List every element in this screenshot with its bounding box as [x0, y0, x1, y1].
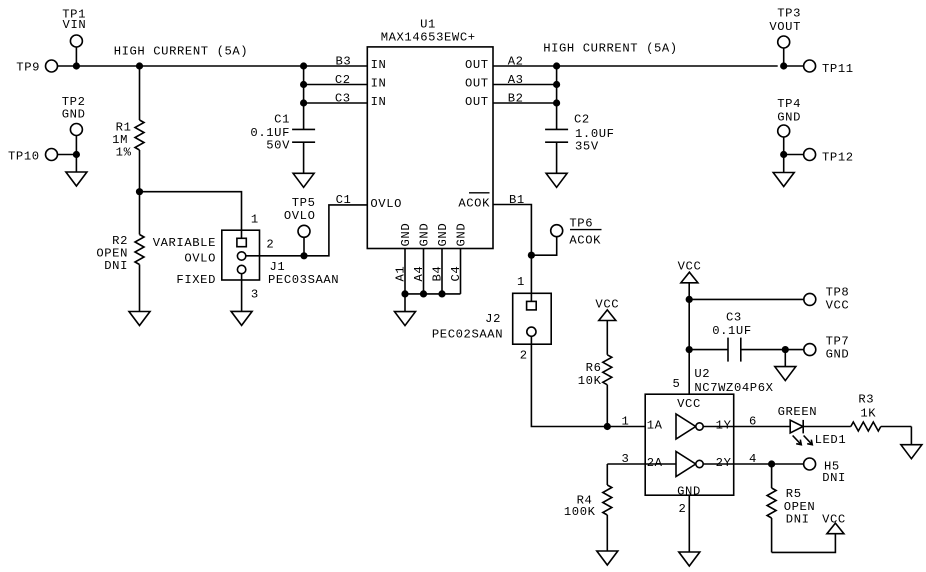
svg-text:U1: U1: [420, 18, 436, 32]
junction TP10 / TP2: [73, 151, 80, 158]
U1 pin designator A1 (rotated): [394, 266, 408, 282]
junction VCC / TP8: [686, 296, 693, 303]
svg-text:C2: C2: [574, 113, 590, 127]
U1 pin name OUT 2: [465, 77, 489, 91]
U1 pin designator A4 (rotated): [412, 266, 426, 282]
U2 pin name 1A: [647, 419, 663, 433]
svg-text:2: 2: [679, 502, 687, 516]
wire 1Y to LED1: [703, 426, 790, 428]
svg-text:TP3: TP3: [777, 7, 801, 21]
junction OUT A2: [553, 62, 560, 69]
svg-text:5: 5: [673, 377, 681, 391]
svg-text:ACOK: ACOK: [458, 197, 490, 211]
U2 pin number 4: [749, 452, 757, 466]
test point TP10: [8, 149, 76, 164]
svg-text:100K: 100K: [564, 505, 596, 519]
ground at R3: [901, 427, 922, 459]
svg-text:C1: C1: [274, 113, 290, 127]
svg-text:OUT: OUT: [465, 77, 489, 91]
test point TP1: [62, 8, 86, 67]
ground at TP4: [773, 155, 794, 187]
J1 pin name FIXED: [176, 273, 216, 287]
svg-text:1Y: 1Y: [716, 419, 732, 433]
svg-text:A1: A1: [394, 266, 408, 282]
net label HIGH CURRENT (5A) left: [114, 45, 249, 59]
svg-text:VCC: VCC: [826, 298, 850, 312]
U1 pin designator C4 (rotated): [449, 266, 463, 282]
junction OUT B2: [553, 99, 560, 106]
svg-text:GND: GND: [62, 108, 86, 122]
U1 pin name OVLO: [370, 197, 402, 211]
wire OUT A3: [493, 84, 557, 86]
U1 pin designator B2: [508, 92, 524, 106]
wire 2Y to H5: [703, 463, 803, 465]
resistor R6: [578, 355, 612, 427]
U1 pin designator A3: [508, 73, 524, 87]
power VCC at R5: [822, 512, 846, 533]
ground at J1 pin 3: [231, 311, 252, 325]
U1 pin name GND B4 (rotated): [436, 223, 450, 247]
svg-text:TP10: TP10: [8, 150, 40, 164]
wire U2 GND pin 2: [688, 495, 690, 552]
U2 pin number 5: [673, 377, 681, 391]
test point TP3: [769, 7, 801, 67]
U1 pin designator A2: [508, 55, 524, 69]
svg-text:C1: C1: [336, 193, 352, 207]
resistor R4: [564, 464, 612, 551]
svg-text:R3: R3: [858, 393, 874, 407]
svg-text:J2: J2: [485, 312, 501, 326]
wire IN C2: [304, 84, 368, 86]
svg-text:C2: C2: [335, 73, 351, 87]
J1 pin number 2: [266, 237, 274, 251]
svg-text:1A: 1A: [647, 419, 663, 433]
junction VIN / TP1: [73, 62, 80, 69]
U1 pin name ACOK with overline: [458, 193, 490, 211]
junction R1 bottom node: [136, 188, 143, 195]
svg-text:0.1UF: 0.1UF: [712, 324, 752, 338]
U2 pin name 1Y: [716, 419, 732, 433]
junction VOUT / TP3: [780, 62, 787, 69]
svg-text:GND: GND: [436, 223, 450, 247]
IC U1 MAX14653EWC+ body: [367, 18, 493, 249]
U1 GND pin wires A1 A4 B4 C4: [405, 249, 461, 294]
svg-text:DNI: DNI: [822, 471, 846, 485]
junction IN B3: [300, 62, 307, 69]
svg-text:OUT: OUT: [465, 58, 489, 72]
svg-text:C3: C3: [335, 92, 351, 106]
power VCC at R6: [595, 297, 619, 355]
svg-text:1: 1: [622, 415, 630, 429]
J1 pin name VARIABLE: [153, 236, 216, 250]
resistor R5: [767, 464, 815, 552]
svg-text:1: 1: [517, 275, 525, 289]
junction VCC / C3: [686, 346, 693, 353]
ground at U1 GND pins: [395, 294, 416, 326]
svg-text:TP4: TP4: [777, 97, 801, 111]
svg-text:GND: GND: [399, 223, 413, 247]
wire IN C3: [304, 102, 368, 104]
U2 pin name 2Y: [716, 456, 732, 470]
svg-text:2: 2: [266, 237, 274, 251]
svg-text:10K: 10K: [578, 374, 602, 388]
svg-text:MAX14653EWC+: MAX14653EWC+: [381, 30, 476, 44]
svg-text:1K: 1K: [860, 407, 876, 421]
junction GND A1: [401, 290, 408, 297]
wire R5 to VCC: [772, 534, 836, 553]
svg-text:35V: 35V: [575, 140, 599, 154]
test point TP6: [531, 217, 601, 256]
J1 value PEC03SAAN: [268, 273, 339, 287]
svg-text:GND: GND: [777, 111, 801, 125]
svg-text:TP12: TP12: [822, 151, 854, 165]
svg-text:IN: IN: [371, 58, 387, 72]
test point TP11: [784, 60, 854, 76]
J2 pin number 1: [517, 275, 525, 289]
svg-text:U2: U2: [694, 367, 710, 381]
U1 pin name IN 3: [371, 95, 387, 109]
svg-text:3: 3: [251, 287, 259, 301]
ground at R4: [597, 551, 618, 565]
test point H5: [804, 458, 846, 485]
wire C1 branch vertical: [303, 66, 305, 129]
svg-text:VIN: VIN: [63, 18, 87, 32]
U1 pin designator B1: [509, 193, 525, 207]
junction IN C2: [300, 81, 307, 88]
junction R6 / 1A net: [604, 423, 611, 430]
svg-text:1%: 1%: [116, 146, 132, 160]
test point TP9: [16, 60, 57, 75]
test point TP5: [284, 196, 316, 256]
U1 pin designator B3: [336, 55, 352, 69]
svg-text:A2: A2: [508, 55, 524, 69]
svg-text:FIXED: FIXED: [176, 273, 216, 287]
svg-text:GREEN: GREEN: [778, 405, 818, 419]
svg-text:OUT: OUT: [465, 95, 489, 109]
svg-text:TP5: TP5: [292, 196, 316, 210]
net label HIGH CURRENT (5A) right: [543, 41, 678, 55]
svg-text:TP11: TP11: [822, 62, 854, 76]
power VCC at U2 pin 5: [678, 260, 702, 395]
test point TP4: [777, 97, 801, 155]
J1 pin number 1: [251, 213, 259, 227]
svg-text:J1: J1: [270, 260, 286, 274]
svg-text:PEC03SAAN: PEC03SAAN: [268, 273, 339, 287]
wire J1 pin3 to ground: [241, 274, 243, 312]
svg-text:B4: B4: [431, 266, 445, 282]
wire R4 to U2 pin 2A: [607, 463, 676, 465]
test point TP2: [62, 95, 86, 155]
ground at U2 pin 2: [679, 552, 700, 566]
IC U2 NC7WZ04P6X body: [645, 367, 773, 499]
capacitor C1: [250, 113, 315, 174]
junction VIN / R1: [136, 62, 143, 69]
svg-text:R6: R6: [586, 361, 602, 375]
svg-text:C4: C4: [449, 266, 463, 282]
wire main input net VIN y=66: [58, 65, 368, 67]
svg-text:B3: B3: [336, 55, 352, 69]
LED LED1: [790, 420, 846, 447]
U2 pin number 1: [622, 415, 630, 429]
inverter U2B: [676, 452, 703, 477]
svg-text:50V: 50V: [266, 139, 290, 153]
U1 pin name OUT 1: [465, 58, 489, 72]
U2 pin name 2A: [647, 456, 663, 470]
ground at C2: [546, 173, 567, 187]
resistor R2: [96, 192, 144, 312]
J1 refdes: [270, 260, 286, 274]
svg-text:HIGH CURRENT (5A): HIGH CURRENT (5A): [114, 45, 249, 59]
svg-text:2A: 2A: [647, 456, 663, 470]
U1 pin name IN 1: [371, 58, 387, 72]
svg-text:B1: B1: [509, 193, 525, 207]
test point TP8: [689, 286, 849, 313]
J1 pin name OVLO: [184, 252, 216, 266]
U1 pin name GND C4 (rotated): [455, 223, 469, 247]
svg-text:VARIABLE: VARIABLE: [153, 236, 216, 250]
J2 value PEC02SAAN: [432, 328, 503, 342]
U1 pin name OUT 3: [465, 95, 489, 109]
capacitor C2: [545, 113, 614, 174]
wire ACOK B1 net: [493, 205, 531, 302]
svg-text:6: 6: [749, 415, 757, 429]
svg-text:VOUT: VOUT: [769, 20, 801, 34]
junction GND B4: [438, 290, 445, 297]
wire R1 node to J1 pin 1: [140, 192, 242, 239]
wire C2 branch vertical: [556, 66, 558, 129]
ground at R2: [129, 312, 150, 326]
svg-text:IN: IN: [371, 77, 387, 91]
junction GND A4: [420, 290, 427, 297]
svg-text:TP9: TP9: [16, 61, 40, 75]
svg-text:GND: GND: [455, 223, 469, 247]
U1 pin name GND A4 (rotated): [418, 223, 432, 247]
net label C1 (OVLO pin designator): [336, 193, 352, 207]
wire J1 pin2 to OVLO pin of U1: [246, 205, 367, 256]
ground at C3: [775, 350, 796, 381]
net label GREEN: [778, 405, 818, 419]
U1 pin designator C2: [335, 73, 351, 87]
svg-text:2: 2: [520, 349, 528, 363]
svg-text:PEC02SAAN: PEC02SAAN: [432, 328, 503, 342]
J1 pin number 3: [251, 287, 259, 301]
U1 pin name GND A1 (rotated): [399, 223, 413, 247]
resistor R3: [803, 393, 911, 432]
junction 2Y / R5: [768, 460, 775, 467]
test point TP7: [804, 335, 850, 362]
ground at C1: [293, 173, 314, 187]
connector J2 PEC02SAAN: [513, 293, 552, 344]
J2 pin number 2: [520, 349, 528, 363]
U2 pin number 6: [749, 415, 757, 429]
svg-text:C3: C3: [726, 310, 742, 324]
U2 pin number 3: [622, 452, 630, 466]
svg-text:1: 1: [251, 213, 259, 227]
svg-text:ACOK: ACOK: [569, 234, 601, 248]
ground at TP2: [66, 155, 87, 187]
wire OUT B2: [493, 102, 557, 104]
svg-text:HIGH CURRENT (5A): HIGH CURRENT (5A): [543, 41, 678, 55]
svg-text:TP6: TP6: [569, 217, 593, 231]
svg-text:DNI: DNI: [786, 513, 810, 527]
svg-text:A3: A3: [508, 73, 524, 87]
junction TP4 / TP12: [780, 151, 787, 158]
wire main output net y=66: [493, 65, 778, 67]
test point TP12: [784, 149, 854, 165]
U1 pin name IN 2: [371, 77, 387, 91]
junction TP5 / OVLO net: [300, 252, 307, 259]
svg-text:OVLO: OVLO: [284, 209, 316, 223]
svg-text:NC7WZ04P6X: NC7WZ04P6X: [694, 381, 773, 395]
svg-text:GND: GND: [826, 347, 850, 361]
wire J2 pin2 to U2 pin 1A: [531, 336, 645, 426]
resistor R1: [112, 66, 144, 192]
svg-text:GND: GND: [418, 223, 432, 247]
U1 pin designator B4 (rotated): [431, 266, 445, 282]
junction C3 / TP7 / ground: [782, 346, 789, 353]
svg-text:VCC: VCC: [677, 397, 701, 411]
U1 pin designator C3: [335, 92, 351, 106]
junction IN C3: [300, 99, 307, 106]
svg-text:R5: R5: [786, 487, 802, 501]
svg-text:DNI: DNI: [104, 259, 128, 273]
svg-text:A4: A4: [412, 266, 426, 282]
capacitor C3: [689, 310, 804, 361]
junction ACOK / TP6: [528, 252, 535, 259]
svg-text:LED1: LED1: [815, 433, 847, 447]
svg-text:OVLO: OVLO: [184, 252, 216, 266]
svg-text:IN: IN: [371, 95, 387, 109]
svg-text:2Y: 2Y: [716, 456, 732, 470]
J2 refdes: [485, 312, 501, 326]
connector J1 PEC03SAAN: [222, 230, 260, 280]
svg-text:OVLO: OVLO: [370, 197, 402, 211]
inverter U2A: [676, 414, 703, 439]
U2 pin number 2: [679, 502, 687, 516]
junction OUT A3: [553, 81, 560, 88]
svg-text:B2: B2: [508, 92, 524, 106]
